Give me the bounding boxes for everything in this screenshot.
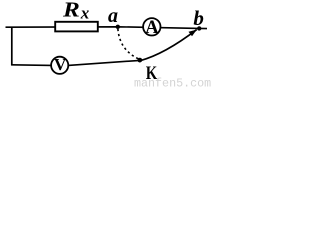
svg-text:a: a [108, 5, 118, 27]
svg-text:manfen5.com: manfen5.com [134, 77, 211, 88]
svg-text:V: V [54, 55, 67, 74]
svg-text:x: x [80, 4, 90, 23]
svg-text:R: R [62, 0, 80, 22]
svg-text:A: A [145, 18, 159, 38]
svg-text:b: b [193, 6, 204, 30]
